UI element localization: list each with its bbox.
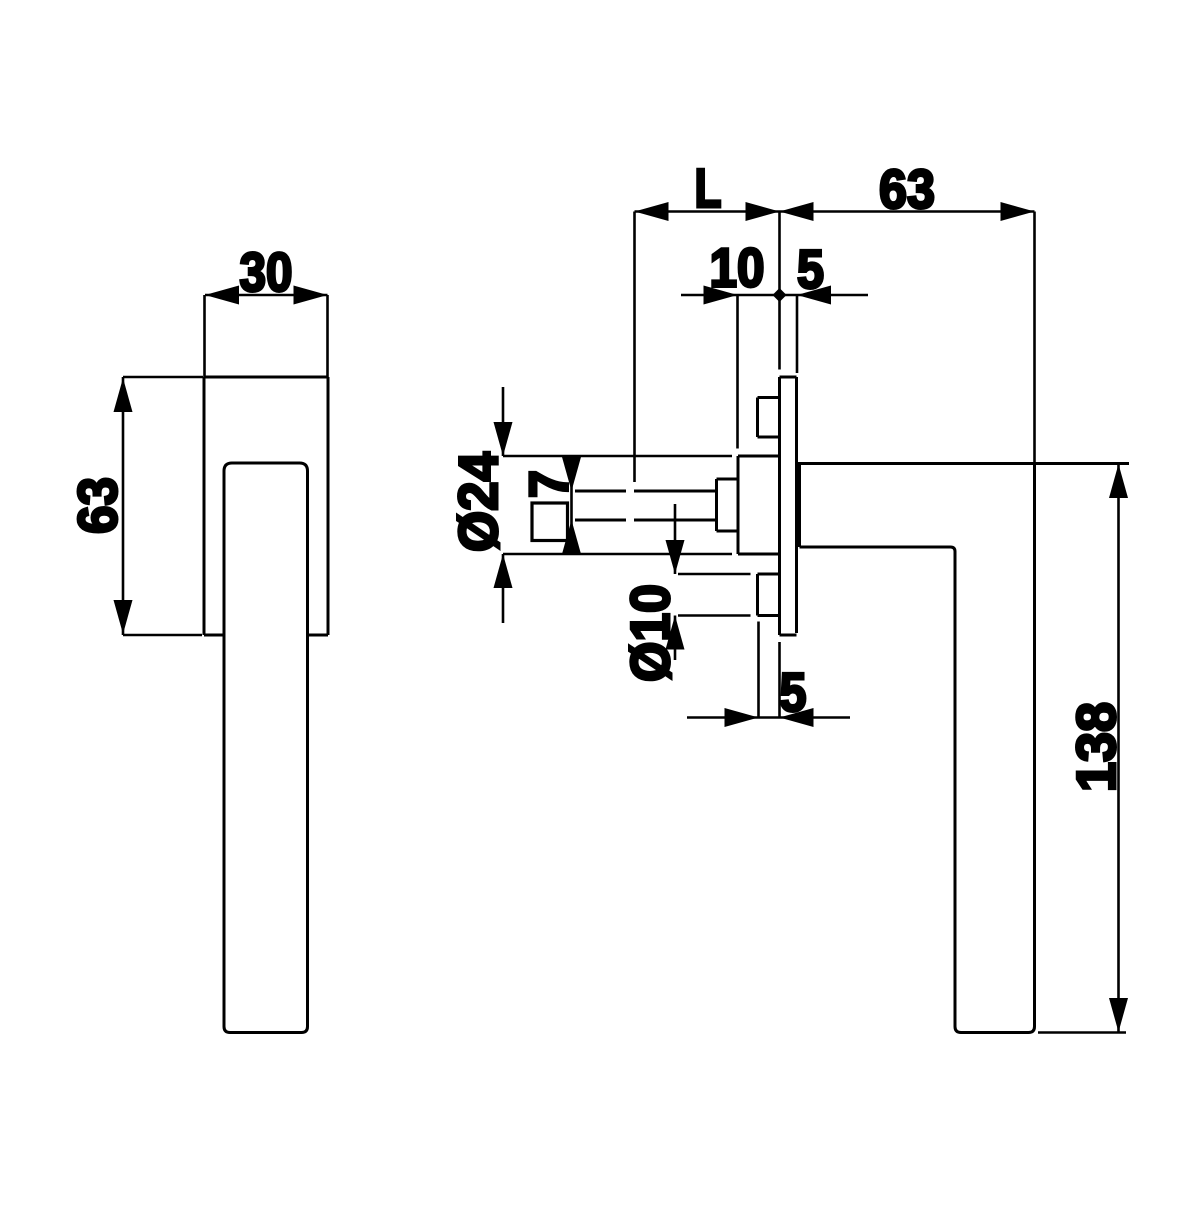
dimension 63 left extension lines (123, 377, 203, 635)
rosette plate side view (right view) (780, 377, 797, 635)
dimension 63 top arrow left (780, 202, 814, 221)
handle arm bottom edge and lever side view (800, 464, 1035, 1033)
dimension 63 left arrow up (114, 378, 133, 412)
svg-text:Ø10: Ø10 (619, 584, 681, 682)
dimension 5 outside arrow (797, 286, 831, 305)
dimension 5 bottom arrow left (725, 708, 759, 727)
collar (O24 cylinder) (738, 456, 780, 554)
svg-text:5: 5 (797, 238, 824, 300)
top fixing stud (758, 398, 780, 438)
dimension 30 line (205, 294, 328, 297)
dimension 63 top arrow right (1001, 202, 1035, 221)
dimension L arrow left (635, 202, 669, 221)
svg-text:63: 63 (879, 158, 935, 220)
svg-text:30: 30 (240, 241, 293, 303)
dimension square7 arrow bottom (562, 520, 581, 554)
svg-text:10: 10 (710, 237, 765, 299)
dimension 63 left line (122, 377, 125, 635)
shared center extension line (778, 212, 781, 370)
dimension 5 bottom extension lines (759, 622, 780, 717)
square symbol (532, 503, 568, 541)
dimension 10 and 5 line (681, 294, 868, 297)
dimension 138 arrow down (1109, 998, 1128, 1032)
dimension 30 arrow left (205, 286, 239, 305)
dimension 5 bottom line (687, 716, 850, 719)
dimension 138 arrow up (1109, 464, 1128, 498)
dimension square7 line (570, 456, 573, 554)
dimension O10 line segments (674, 504, 677, 574)
handle arm top edge + 138 top extension (797, 462, 1129, 465)
handle arm end joint line (798, 464, 801, 548)
dimension O24 arrow top (494, 422, 513, 456)
dimension square7 arrow top (562, 457, 581, 491)
dimension O10 arrow bottom (666, 616, 685, 650)
dimension 10 extension line (736, 295, 739, 449)
dimension O24 arrow bottom (494, 554, 513, 588)
dimension L and 63 top: shared dimension line (635, 210, 1035, 213)
dimension 63 left arrow down (114, 600, 133, 634)
dimension O10 arrow top (666, 540, 685, 574)
svg-text:5: 5 (780, 661, 807, 723)
dimension 30 extension lines (205, 295, 328, 377)
svg-text:L: L (695, 157, 722, 219)
dimension O10 extension lines (678, 574, 751, 616)
spindle square shaft side view with break (575, 491, 717, 520)
svg-text:63: 63 (67, 477, 129, 534)
rosette front view (left view) (204, 377, 328, 635)
dimension 5 extension line (796, 295, 799, 373)
dimension L arrow right (746, 202, 780, 221)
dimension 63 top right extension line (1033, 212, 1036, 464)
dimension 138 bottom extension line (1038, 1031, 1126, 1034)
dimension L left extension line (633, 212, 636, 483)
collar step (717, 479, 739, 531)
shared tick diamond (773, 288, 787, 302)
dimension 138 line (1117, 464, 1120, 1032)
dimension 30 arrow right (294, 286, 328, 305)
dimension O24 line segments (502, 387, 505, 456)
handle lever front view (224, 463, 308, 1033)
bottom fixing stud (758, 574, 780, 616)
svg-text:Ø24: Ø24 (447, 452, 509, 552)
dimension 10 outside arrow (704, 286, 738, 305)
svg-text:138: 138 (1065, 702, 1127, 792)
svg-text:7: 7 (518, 470, 580, 498)
dimension O24 extension lines (503, 456, 732, 554)
dimension 5 bottom arrow right (780, 708, 814, 727)
